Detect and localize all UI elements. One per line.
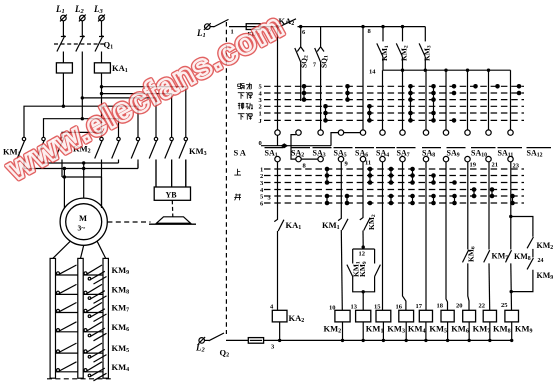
coil KM4 (399, 310, 426, 342)
wire top line (298, 26, 426, 28)
switch segment SA12 (508, 130, 551, 162)
coil KM3 (376, 310, 405, 342)
wire drop to SA6 (362, 27, 364, 130)
switch Q2 lower pole (205, 333, 230, 359)
svg-text:SA: SA (234, 148, 248, 158)
coil KM5 (419, 310, 447, 342)
wire SA4 to KM3 coil (382, 162, 384, 310)
wire rotor lead 2 (81, 245, 84, 258)
terminal L2 (74, 4, 86, 21)
contactor aux contact KM2 (top) (396, 25, 409, 70)
rotor short contact KM5 (left gap) (56, 343, 78, 353)
controller table upper dashed rows (264, 86, 524, 120)
wire motor lead 1 (63, 169, 65, 209)
wire phase 3 / pole c4 (101, 73, 103, 137)
wire rotor lead 3 (97, 241, 106, 258)
wire YB lead 2 (171, 160, 173, 188)
rotor short contact KM8 (right gap) (83, 284, 106, 303)
series branch KM2-KM9 (right edge) (509, 215, 553, 293)
svg-text:23: 23 (513, 163, 520, 170)
resistor rail 3 (103, 258, 108, 378)
contactor aux contact KM6 (456, 246, 477, 310)
switch segment SA8 (422, 130, 441, 162)
wire bottom rail (node 3) (264, 339, 512, 341)
switch segment SA4 (376, 130, 395, 162)
svg-text:24: 24 (538, 258, 544, 264)
svg-text:16: 16 (396, 304, 403, 311)
label qiangli xiajiang (strong descent) (238, 83, 253, 99)
svg-text:21: 21 (492, 162, 499, 169)
wire SA1 to KA1 contact (node 3) (274, 162, 277, 222)
wire phase 2 (81, 52, 83, 119)
terminal L1 (55, 4, 67, 21)
svg-text:25: 25 (501, 302, 508, 309)
wire YB lead 3 (185, 160, 187, 188)
wire SA6 down (360, 162, 363, 220)
svg-text:2: 2 (260, 173, 263, 180)
wiper line (position 0) (261, 133, 360, 170)
wire motor lead 2 (83, 163, 85, 198)
rotor short contact KM4 (right gap) (83, 362, 106, 381)
rotor short contact KM4 (left gap) (56, 362, 78, 372)
wire Q2 to fuse (226, 339, 248, 341)
switch segment SA1 (265, 130, 284, 162)
motor-brake linkage (dashed) (107, 221, 150, 223)
switch segment SA6 (355, 130, 374, 162)
contactor aux contact KM2 (mid) (363, 214, 377, 247)
rotor short contact KM8 (left gap) (56, 284, 78, 294)
svg-text:M: M (79, 213, 87, 223)
label shang (up) (234, 169, 241, 175)
overload relay coil KA1 (phase 1) (56, 63, 72, 73)
wires rail14 columns down to SA terminals (383, 70, 511, 130)
wire SA7 to KM4 coil (403, 162, 406, 310)
wire node1 to fuse (229, 26, 246, 28)
node 6 (299, 25, 302, 28)
resistor bottom dashes (47, 378, 111, 380)
parallel branch KM1/KM9 contacts (347, 247, 381, 310)
label sheng (rise) (234, 194, 241, 201)
switch segment SA10 (465, 130, 496, 162)
wire motor lead 3 (101, 177, 103, 206)
rotor short contact KM7 (right gap) (83, 303, 106, 322)
wire rail H (c1 to c6 bottom) (24, 164, 138, 169)
wire rotor lead 1 (53, 241, 71, 258)
rotor short contact KM9 (left gap) (56, 265, 78, 275)
watermark www.elecfans.com (0, 6, 290, 187)
contactor aux contact KM1 (mid) (322, 219, 348, 312)
limit switch SQ2 (295, 27, 310, 101)
svg-text:20: 20 (456, 303, 463, 310)
svg-text:3~: 3~ (78, 224, 86, 233)
rotor short contact KM9 (right gap) (83, 265, 106, 284)
node labels 9 11 19 21 23 (345, 160, 520, 170)
wire SA9 to KM6 coil (446, 162, 448, 310)
label zhidong xiajiang (brake descent) (238, 103, 253, 120)
limit switch SQ1 (313, 27, 330, 130)
svg-text:13: 13 (351, 304, 358, 311)
wire SA11 down (488, 162, 490, 250)
coil KM9 (505, 310, 533, 342)
brake coil YB (154, 187, 190, 200)
wire node2 to SA1 (277, 27, 279, 130)
svg-text:15: 15 (374, 304, 381, 311)
wire rail A (phase3 to c9) (102, 87, 186, 138)
fuse FU (top) (246, 24, 260, 38)
wire phase 1 (62, 73, 64, 106)
contactor contact KM3 pole 2 (165, 137, 174, 187)
terminal L2 (control) (195, 337, 206, 354)
wire rail B (phase3 to c8) (102, 94, 172, 138)
switch segment SA11 (486, 130, 522, 162)
rotor short contact KM7 (left gap) (56, 303, 78, 313)
fuse FU (bottom) (248, 338, 263, 344)
switch segment SA3 (313, 130, 332, 162)
contactor aux contact KM1 (top) (377, 25, 390, 70)
contactor contact KM2 pole 1 (95, 137, 104, 208)
relay contact KA1 (270, 220, 301, 311)
lower table row labels (260, 166, 264, 207)
terminal L1 (control) (196, 23, 211, 39)
brake shoe symbol (149, 217, 196, 224)
upper table row labels (259, 84, 263, 125)
wire YB lead 1 (155, 160, 157, 188)
resistor rail 2 (78, 258, 83, 378)
contact closure dots (lower table) (325, 167, 515, 206)
svg-text:12: 12 (359, 251, 366, 258)
svg-text:1: 1 (259, 110, 262, 117)
svg-text:11: 11 (365, 160, 371, 167)
coil KA2 (272, 310, 304, 342)
coil KM6 (441, 310, 469, 342)
contactor contact KM2 pole 3 (131, 137, 140, 168)
switch segment SA9 (443, 130, 465, 162)
switch segment SA7 (397, 130, 416, 162)
svg-text:YB: YB (166, 190, 178, 199)
wire rail C (phase2 to c7) (82, 98, 156, 137)
wire fuse to node 2 (260, 26, 279, 28)
coil KM7 (463, 310, 491, 342)
node 12 (362, 245, 365, 248)
switch segment SA5 (334, 130, 353, 162)
svg-text:19: 19 (470, 162, 477, 169)
wire SA10 down (467, 162, 469, 250)
svg-text:18: 18 (437, 303, 444, 310)
overload relay coil KA1 (phase 3) (94, 63, 127, 74)
Q2 linkage (dashed) (225, 22, 227, 334)
contactor contact KM3 pole 3 (179, 137, 188, 187)
wire SA12 down (510, 162, 512, 250)
contactor aux contact KM7 (479, 250, 509, 310)
contactor contact KM1 pole 1 (17, 137, 25, 168)
wire rail G (c2 to c5 bottom) (44, 162, 119, 164)
coil KM2 (324, 310, 351, 342)
contactor contact KM2 pole 2 (112, 137, 121, 163)
rotor short contact KM6 (left gap) (56, 322, 78, 332)
coil KM1 (356, 310, 384, 342)
contactor contact KM1 pole 2 (37, 137, 46, 163)
wire rail F (c3 to phase3) (62, 132, 102, 137)
svg-text:7: 7 (313, 63, 316, 69)
svg-text:14: 14 (369, 69, 376, 76)
wire rail D (c1 to c6, phase1 junction) (24, 106, 138, 137)
relay contact KA2 (NO) (279, 16, 297, 27)
rotor short contact KM6 (right gap) (83, 322, 106, 341)
switch Q2 upper pole (210, 19, 234, 35)
contactor aux contact KM8 (501, 250, 531, 310)
resistor rail 1 (50, 258, 55, 378)
contact closure dots (upper table) (302, 84, 522, 123)
wire rail E (c2 to c5, phase2 junction) (44, 119, 119, 138)
contactor contact KM1 pole 3 (55, 137, 64, 177)
svg-text:22: 22 (479, 303, 486, 310)
coil KM8 (483, 310, 510, 342)
svg-text:17: 17 (416, 303, 423, 310)
switch segment SA2 (291, 130, 310, 162)
controller table lower dashed rows (264, 169, 524, 203)
wire rail 14 (383, 69, 511, 71)
motor M 3~ (60, 198, 107, 245)
terminal L3 (93, 4, 105, 21)
contactor contact KM3 pole 1 (149, 137, 158, 187)
rotor short contact KM5 (right gap) (83, 343, 106, 362)
brake linkage (dashed) (171, 200, 174, 216)
contactor aux contact KM3 (top) (419, 27, 432, 71)
wire SA8 to KM5 coil (425, 162, 427, 310)
disconnect switch Q1 (54, 21, 113, 63)
wire SA5 down (338, 162, 341, 221)
wire rail I (c3 bottom to motor lead) (62, 176, 102, 178)
